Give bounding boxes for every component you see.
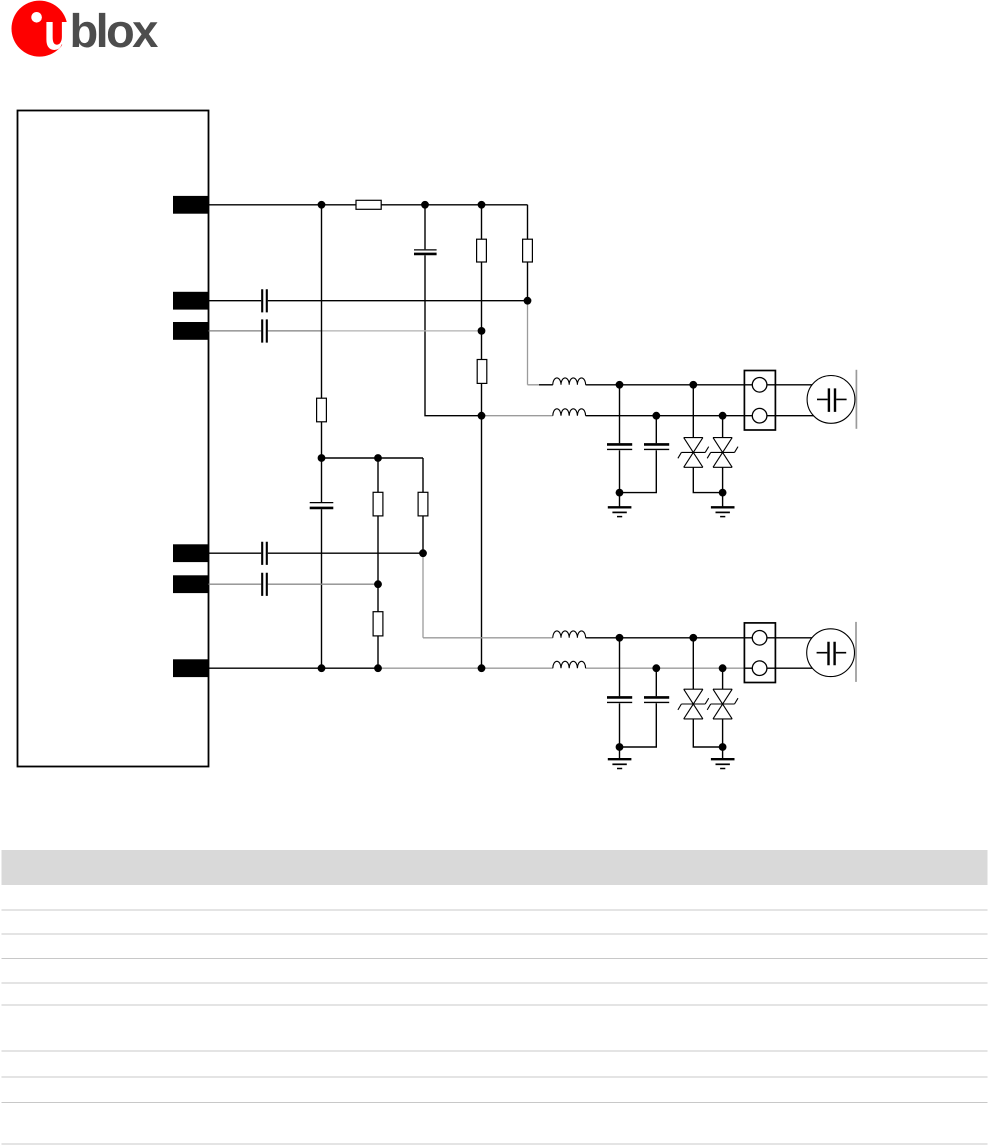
junction pin6 wire / x481 branch (478, 664, 486, 672)
junction mic A lower rail / TVS D2 (719, 412, 727, 420)
microphone MK2 (807, 629, 855, 677)
junction top rail / shunt capacitor branch (421, 201, 429, 209)
resistor R3 (bias, x481) (477, 205, 487, 262)
capacitor C8 (shunt, mic B) (620, 668, 670, 747)
junction x378 / y458 rail (374, 454, 382, 462)
TVS diode D2 (707, 416, 738, 493)
junction mic B lower rail / TVS D4 (719, 664, 727, 672)
wire horizontal y458 (322, 457, 424, 459)
junction ground node A right (719, 489, 727, 497)
resistor R7 (x378 upper) (373, 458, 383, 584)
ground symbol (mic B caps) (608, 747, 632, 769)
junction x321 / y458 rail (318, 454, 326, 462)
capacitor C10 (series, pin5 wire) (262, 573, 267, 596)
table row line 9 (2, 1143, 988, 1145)
resistor R6 (x423) (418, 458, 428, 553)
table row line 1 (2, 909, 988, 911)
junction ground node A left (616, 489, 624, 497)
pin 3 (173, 322, 209, 340)
junction mic B lower rail / capacitor C8 (652, 664, 660, 672)
inductor L1 (553, 378, 586, 385)
pin 2 (173, 292, 209, 310)
pin 4 (173, 544, 209, 562)
junction pin5 wire / x378 branch (374, 580, 382, 588)
capacitor C2 (series, pin2 wire) (262, 289, 267, 312)
ground symbol (mic A TVS) (711, 493, 735, 517)
capacitor C3 (series, pin3 wire) (262, 319, 267, 342)
u-blox logo text blox (73, 13, 158, 48)
junction pin3 wire / mic A negative branch (478, 327, 486, 335)
wire grey drop channel A mic P (528, 301, 553, 385)
connector J2 (744, 623, 775, 683)
resistor R4 (x481 mid) (477, 360, 487, 384)
wire channel A top rail (586, 384, 745, 386)
wire pin1 top rail (209, 205, 528, 239)
microphone MK1 (807, 376, 855, 424)
u-blox logo text u (46, 22, 68, 50)
microphone MK2 side bar (855, 622, 857, 682)
table row line 4 (2, 982, 988, 984)
wire channel A bottom rail (586, 415, 745, 417)
wires J2 to microphone B (775, 638, 813, 668)
junction mic B rail / capacitor C7 (616, 634, 624, 642)
junction top rail / bias resistor branch (478, 201, 486, 209)
junction ground node B right (719, 743, 727, 751)
inductor L2 (553, 409, 586, 416)
inductor L4 (553, 661, 586, 668)
table row line 6 (2, 1050, 988, 1052)
table row line 2 (2, 933, 988, 935)
inductor L3 (553, 631, 586, 638)
table header band (2, 850, 988, 885)
wire channel B top rail (586, 637, 745, 639)
wire vertical x321 (321, 205, 323, 398)
capacitor C4 (mid shunt, x321) (310, 503, 334, 669)
connector J1 (744, 371, 775, 431)
u-blox logo red circle (12, 1, 68, 57)
resistor R8 (x378 lower) (373, 584, 383, 668)
resistor R2 (bias, x527) (523, 239, 533, 301)
capacitor C6 (shunt, mic A) (620, 416, 670, 493)
TVS diode D3 (678, 638, 723, 747)
junction mic A lower rail / capacitor C6 (652, 412, 660, 420)
wire pin2 (209, 300, 528, 302)
junction ground node B left (616, 743, 624, 751)
TVS diode D1 (678, 385, 723, 493)
wire pin3 grey (209, 330, 482, 332)
junction mic B rail / TVS D3 (689, 634, 697, 642)
wire grey drop channel B mic P (423, 553, 553, 638)
table row line 8 (2, 1102, 988, 1104)
capacitor C1 (top shunt) (414, 205, 482, 416)
wire pin6 (209, 667, 745, 669)
table row line 7 (2, 1076, 988, 1078)
junction mic A rail / capacitor C5 (616, 381, 624, 389)
pin 1 (173, 196, 209, 214)
capacitor C7 (shunt, mic B) (607, 638, 632, 747)
ground symbol (mic B TVS) (711, 747, 735, 769)
wire vertical x481 lower (481, 383, 483, 668)
ground symbol (mic A caps) (608, 493, 632, 517)
pin 6 (173, 659, 209, 677)
table row line 3 (2, 958, 988, 960)
wire pin5 grey (209, 583, 379, 585)
capacitor C9 (series, pin4 wire) (262, 542, 267, 565)
junction pin6 wire / x378 branch (374, 664, 382, 672)
junction pin4 wire / mic B positive branch (419, 549, 427, 557)
junction pin6 wire / x321 branch (318, 664, 326, 672)
module U1 (18, 111, 209, 767)
junction top rail / x321 branch (318, 201, 326, 209)
wire grey channel A mic N (482, 415, 553, 417)
table row line 5 (2, 1004, 988, 1006)
microphone MK1 side bar (855, 370, 857, 429)
resistor R1 (series, top rail) (356, 200, 381, 209)
pin 5 (173, 575, 209, 593)
capacitor C5 (shunt, mic A) (607, 385, 632, 493)
wire pin4 (209, 552, 424, 554)
wire vertical x481 upper (481, 262, 483, 360)
junction mic A negative node (478, 412, 486, 420)
junction mic A rail / TVS D1 (689, 381, 697, 389)
TVS diode D4 (707, 668, 738, 747)
junction pin2 wire / mic A positive branch (524, 297, 532, 305)
wires J1 to microphone A (775, 385, 813, 416)
resistor R5 (x321) (317, 398, 327, 502)
